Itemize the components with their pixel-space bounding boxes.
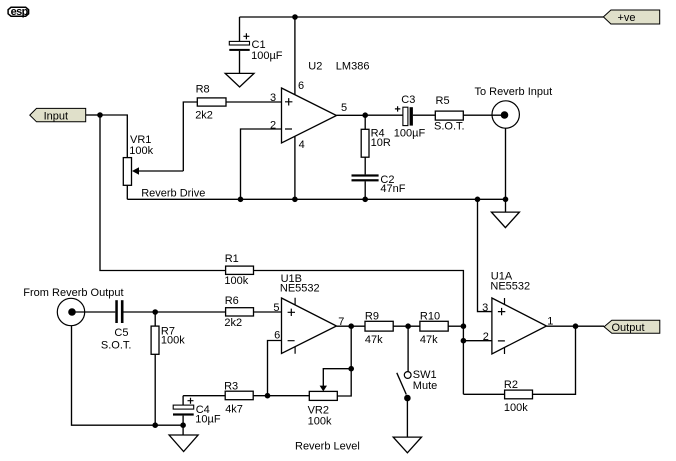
svg-text:100µF: 100µF <box>394 127 426 139</box>
op-amp U2 <box>282 61 370 144</box>
ground (SW1) <box>393 437 421 453</box>
switch SW1 <box>397 326 437 437</box>
svg-text:47k: 47k <box>365 334 383 346</box>
resistor R8 <box>195 84 226 122</box>
svg-text:To Reverb Input: To Reverb Input <box>475 86 553 98</box>
node U2 out <box>362 112 368 118</box>
svg-text:U2: U2 <box>308 61 322 73</box>
node U1B out <box>348 323 354 329</box>
node R3/VR2/pin6 <box>265 393 271 399</box>
node R10/R1 <box>461 323 467 329</box>
svg-text:esp: esp <box>11 6 29 18</box>
svg-text:100k: 100k <box>161 335 185 347</box>
svg-text:10R: 10R <box>371 137 391 149</box>
node R7 bottom <box>152 422 158 428</box>
potentiometer VR1 <box>123 134 183 185</box>
node pin2 net <box>238 197 244 203</box>
svg-text:2k2: 2k2 <box>195 109 213 121</box>
svg-text:2k2: 2k2 <box>224 317 242 329</box>
svg-text:+ve: +ve <box>618 12 636 24</box>
Output tag <box>604 320 660 334</box>
ground (C1) <box>225 73 254 87</box>
capacitor C3 <box>365 94 435 139</box>
svg-text:Reverb Level: Reverb Level <box>295 441 360 453</box>
svg-text:2: 2 <box>270 120 276 132</box>
resistor R4 <box>361 115 391 157</box>
svg-text:2: 2 <box>483 331 489 343</box>
node jack ground <box>503 197 509 203</box>
capacitor C2 <box>352 157 406 199</box>
svg-text:LM386: LM386 <box>336 61 370 73</box>
wire Reverb Drive net <box>127 198 505 200</box>
svg-text:From Reverb Output: From Reverb Output <box>23 287 123 299</box>
wire R1 to U1A net <box>254 271 464 395</box>
wire VR2 right to U1B out <box>337 326 351 396</box>
Input tag <box>30 108 86 122</box>
resistor R6 <box>155 295 281 329</box>
ESP logo <box>8 6 29 18</box>
wire pin4 U2 <box>294 136 296 199</box>
svg-text:R2: R2 <box>504 379 518 391</box>
svg-text:R9: R9 <box>365 310 379 322</box>
+ve power rail wire <box>240 16 604 18</box>
wire pin6 U2 <box>294 17 296 95</box>
wire VR1 bottom <box>126 185 128 199</box>
resistor R1 <box>224 253 253 287</box>
svg-text:1: 1 <box>547 316 553 328</box>
node pin4 net <box>292 197 298 203</box>
resistor R10 <box>420 310 464 346</box>
potentiometer VR2 <box>308 369 352 428</box>
resistor R9 <box>365 310 420 346</box>
wire U1B output <box>337 325 366 327</box>
wire to U1A pin3 <box>478 199 492 311</box>
wire R8 to pin3 <box>226 101 282 103</box>
op-amp U1B <box>280 273 337 354</box>
wire pin2 U1A <box>463 340 492 342</box>
wire C4 down to ground <box>182 425 184 435</box>
wire to VR1 top <box>100 115 127 158</box>
svg-text:100k: 100k <box>129 145 153 157</box>
svg-text:47k: 47k <box>420 334 438 346</box>
node C4 bottom <box>180 422 186 428</box>
resistor R7 <box>151 312 185 425</box>
wire input <box>86 114 100 116</box>
svg-text:3: 3 <box>482 302 488 314</box>
svg-text:R5: R5 <box>436 95 450 107</box>
svg-text:10µF: 10µF <box>195 414 221 426</box>
capacitor C1 <box>229 17 282 73</box>
svg-text:S.O.T.: S.O.T. <box>434 121 465 133</box>
node U1A feed <box>475 197 481 203</box>
connector To Reverb Input <box>475 86 553 212</box>
svg-text:NE5532: NE5532 <box>490 280 530 292</box>
svg-text:5: 5 <box>273 302 279 314</box>
svg-text:Reverb Drive: Reverb Drive <box>141 188 205 200</box>
node input <box>97 112 103 118</box>
svg-text:R10: R10 <box>420 310 440 322</box>
svg-text:100k: 100k <box>504 402 528 414</box>
capacitor C5 <box>101 300 155 351</box>
svg-text:4: 4 <box>299 139 305 151</box>
svg-text:C3: C3 <box>401 94 415 106</box>
+ve tag <box>603 10 659 24</box>
svg-text:6: 6 <box>298 80 304 92</box>
wire output pin5 <box>337 114 366 116</box>
svg-text:4k7: 4k7 <box>225 403 243 415</box>
op-amp U1A <box>490 271 546 354</box>
svg-text:Output: Output <box>612 322 645 334</box>
node VR2 wiper <box>348 366 354 372</box>
svg-text:R3: R3 <box>224 381 238 393</box>
node pin2 <box>461 338 467 344</box>
svg-text:6: 6 <box>274 329 280 341</box>
resistor R3 <box>183 381 309 416</box>
svg-text:SW1: SW1 <box>413 369 437 381</box>
node: +ve junction <box>292 14 298 20</box>
svg-text:NE5532: NE5532 <box>280 283 320 295</box>
wire pin2 U2 <box>241 129 282 199</box>
svg-text:R6: R6 <box>225 295 239 307</box>
resistor R2 <box>463 326 575 414</box>
node C5/R7 <box>152 309 158 315</box>
capacitor C4 <box>173 396 221 426</box>
wire input to R1 <box>100 115 226 271</box>
svg-text:R8: R8 <box>196 84 210 96</box>
svg-text:Input: Input <box>44 111 68 123</box>
wire wiper to R8 <box>183 102 197 171</box>
ground (C4) <box>169 435 198 452</box>
svg-text:3: 3 <box>270 92 276 104</box>
node R9/R10 <box>405 323 411 329</box>
wire R5 to jack <box>463 114 504 116</box>
svg-text:R1: R1 <box>225 253 239 265</box>
svg-text:Mute: Mute <box>413 380 437 392</box>
svg-text:100k: 100k <box>308 416 332 428</box>
node output <box>573 323 579 329</box>
svg-text:7: 7 <box>338 316 344 328</box>
wire U1A output <box>547 325 605 327</box>
svg-text:C5: C5 <box>114 327 128 339</box>
ground (reverb input) <box>491 212 519 228</box>
resistor R5 <box>434 95 465 133</box>
svg-text:47nF: 47nF <box>380 183 405 195</box>
connector From Reverb Output <box>23 287 183 425</box>
svg-text:100k: 100k <box>224 275 248 287</box>
svg-text:100µF: 100µF <box>251 50 283 62</box>
node C2 net <box>362 197 368 203</box>
svg-text:S.O.T.: S.O.T. <box>101 340 132 352</box>
wire pin6 U1B <box>268 341 282 396</box>
svg-text:5: 5 <box>341 102 347 114</box>
